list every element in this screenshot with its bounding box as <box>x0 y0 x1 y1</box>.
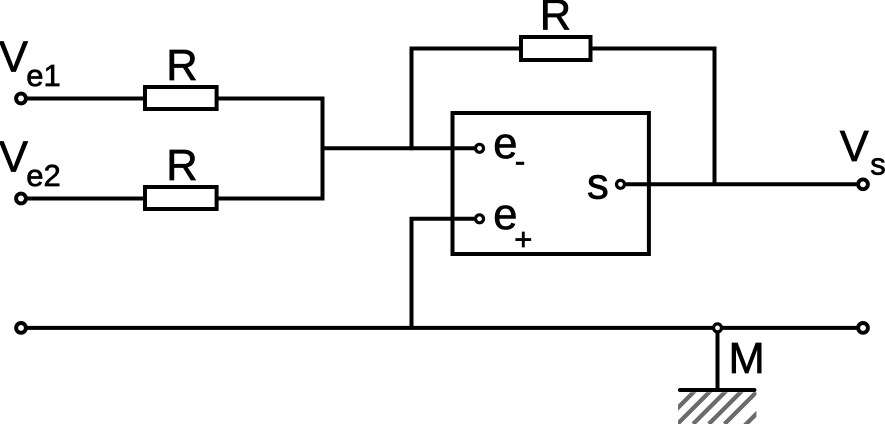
svg-text:V: V <box>0 34 28 82</box>
svg-text:s: s <box>870 146 885 181</box>
svg-text:V: V <box>840 123 869 171</box>
svg-text:e: e <box>493 120 517 168</box>
svg-text:R: R <box>540 0 571 40</box>
svg-text:-: - <box>515 143 525 178</box>
svg-text:R: R <box>166 142 197 190</box>
svg-text:M: M <box>729 335 765 383</box>
svg-text:+: + <box>514 221 532 256</box>
svg-text:e2: e2 <box>26 158 60 193</box>
svg-text:R: R <box>166 42 197 90</box>
svg-text:e1: e1 <box>26 58 60 93</box>
svg-text:V: V <box>0 134 28 182</box>
svg-text:s: s <box>587 161 609 209</box>
